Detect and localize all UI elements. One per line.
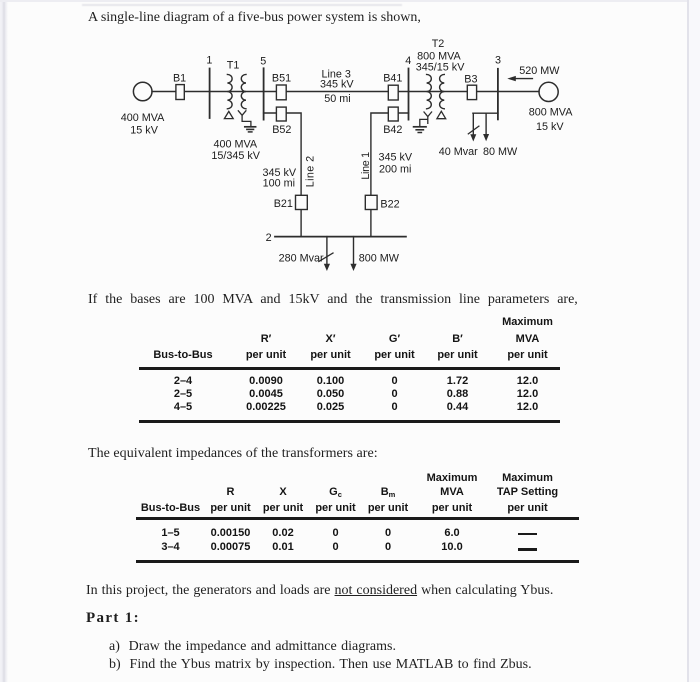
800 MW load arrow bbox=[350, 237, 356, 271]
left scan edge strip bbox=[0, 0, 9, 682]
node 1 label bbox=[206, 54, 212, 66]
T1 ground bbox=[245, 127, 256, 132]
bus 2 bbox=[275, 236, 406, 238]
B1 label bbox=[173, 73, 186, 85]
breaker B42 bbox=[388, 107, 398, 121]
svg-text:B42: B42 bbox=[383, 124, 402, 136]
svg-text:B3: B3 bbox=[464, 73, 477, 85]
280 Mvar load label bbox=[279, 253, 324, 265]
svg-text:400 MVA: 400 MVA bbox=[213, 139, 257, 151]
80 MW load arrow bbox=[483, 113, 489, 141]
svg-text:T1: T1 bbox=[227, 60, 240, 72]
bus 3 load stub wire bbox=[473, 112, 498, 114]
scan bleed-through ghost line bbox=[82, 4, 402, 6]
Line 3 label bbox=[320, 69, 354, 105]
wire bus 3 to generator G2 bbox=[498, 91, 539, 93]
B42 label bbox=[383, 124, 402, 136]
svg-text:15/345 kV: 15/345 kV bbox=[211, 150, 260, 162]
svg-text:280 Mvar: 280 Mvar bbox=[279, 253, 324, 265]
svg-text:800 MVA: 800 MVA bbox=[529, 107, 573, 119]
breaker B52 bbox=[276, 107, 286, 121]
B51 label bbox=[272, 72, 291, 84]
wire bus 4 through T2 to bus 3 bbox=[409, 91, 498, 93]
svg-text:T2: T2 bbox=[432, 38, 445, 50]
520 MW label bbox=[519, 65, 560, 77]
Line 2 name label (rotated) bbox=[305, 155, 317, 187]
breaker B21 bbox=[296, 195, 308, 209]
T2 rating label 800 MVA 345/15 kV bbox=[416, 38, 465, 74]
800 MW load label bbox=[359, 253, 400, 265]
bus 1 bbox=[209, 69, 211, 119]
svg-text:Line 1: Line 1 bbox=[360, 152, 372, 180]
svg-text:80 MW: 80 MW bbox=[483, 146, 518, 158]
wire Line 1 below B22 to bus 2 bbox=[370, 210, 372, 237]
svg-text:B41: B41 bbox=[383, 72, 402, 84]
paragraph 3 bbox=[88, 447, 378, 461]
wire bus 4 to Line 1 corner bbox=[371, 113, 409, 195]
B22 label bbox=[380, 198, 399, 210]
svg-text:400 MVA: 400 MVA bbox=[121, 112, 165, 124]
transformer T2 primary winding bbox=[427, 74, 432, 108]
breaker B51 bbox=[276, 85, 286, 100]
svg-text:345 kV: 345 kV bbox=[378, 152, 412, 164]
transformer T1 secondary winding bbox=[241, 74, 246, 108]
paragraph 1 bbox=[88, 11, 421, 25]
40 Mvar switch slash bbox=[468, 126, 479, 134]
bus 3 bbox=[497, 69, 499, 120]
T1 label bbox=[227, 60, 240, 72]
node 4 label bbox=[405, 55, 411, 67]
B52 label bbox=[272, 124, 291, 136]
280 Mvar load arrow bbox=[324, 237, 330, 271]
svg-text:B22: B22 bbox=[380, 198, 399, 210]
T2 delta winding symbol bbox=[437, 111, 446, 118]
svg-text:B52: B52 bbox=[272, 124, 291, 136]
bus 5 bbox=[263, 68, 265, 119]
svg-text:200 mi: 200 mi bbox=[379, 164, 411, 176]
280 Mvar switch slash bbox=[319, 253, 333, 262]
svg-text:5: 5 bbox=[260, 55, 266, 67]
svg-text:4: 4 bbox=[405, 55, 411, 67]
TABLE 1 bbox=[0, 0, 700, 1]
svg-text:15 kV: 15 kV bbox=[130, 125, 158, 137]
Line 2 rating label 345 kV 100 mi bbox=[262, 167, 296, 190]
node 2 label bbox=[266, 232, 272, 244]
breaker B1 bbox=[176, 85, 184, 100]
paragraph 4 bbox=[86, 584, 553, 598]
40 Mvar load label bbox=[439, 146, 478, 158]
node 3 label bbox=[495, 55, 501, 67]
svg-text:B51: B51 bbox=[272, 72, 291, 84]
svg-text:520 MW: 520 MW bbox=[519, 65, 560, 77]
B41 label bbox=[383, 72, 402, 84]
520 MW arrow into bus 3 bbox=[507, 76, 532, 81]
paragraph 7 bbox=[109, 658, 532, 672]
svg-text:345 kV: 345 kV bbox=[320, 79, 354, 91]
transformer T1 primary winding bbox=[227, 74, 232, 108]
wire G1 to bus 1 bbox=[152, 91, 210, 93]
T1 delta winding symbol bbox=[224, 111, 233, 118]
svg-text:3: 3 bbox=[495, 55, 501, 67]
T1 wye winding symbol bbox=[238, 111, 251, 127]
CIRCUIT SVG placeholder bbox=[0, 0, 700, 300]
top scan edge line bbox=[0, 0, 700, 2]
breaker B22 bbox=[365, 195, 377, 209]
wire bus 5 to Line 2 corner bbox=[264, 113, 302, 195]
G2 rating label 800 MVA 15 kV bbox=[529, 107, 573, 133]
T1 rating label 400 MVA 15/345 kV bbox=[211, 139, 260, 163]
wire bus 5 to bus 4 (Line 3) bbox=[264, 91, 409, 93]
generator G1 bbox=[133, 82, 152, 101]
svg-text:B1: B1 bbox=[173, 73, 186, 85]
paragraph 5 bbox=[86, 611, 140, 625]
svg-text:345/15 kV: 345/15 kV bbox=[416, 62, 465, 74]
svg-text:Line 2: Line 2 bbox=[305, 155, 317, 187]
generator G2 bbox=[539, 82, 558, 101]
80 MW load label bbox=[483, 146, 518, 158]
svg-text:40 Mvar: 40 Mvar bbox=[439, 146, 478, 158]
right scan edge line bbox=[687, 0, 689, 682]
breaker B41 bbox=[388, 85, 398, 100]
breaker B3 bbox=[467, 85, 476, 99]
wire Line 2 below B21 to bus 2 bbox=[300, 210, 302, 237]
B3 label bbox=[464, 73, 477, 85]
T2 ground bbox=[414, 127, 426, 133]
B21 label bbox=[274, 198, 293, 210]
svg-text:100 mi: 100 mi bbox=[263, 177, 295, 189]
T2 wye winding symbol bbox=[420, 112, 432, 126]
svg-text:2: 2 bbox=[266, 232, 272, 244]
G1 rating label 400 MVA 15 kV bbox=[121, 112, 165, 137]
Line 1 name label (rotated) bbox=[360, 152, 372, 180]
svg-text:B21: B21 bbox=[274, 198, 293, 210]
svg-text:15 kV: 15 kV bbox=[536, 121, 564, 133]
40 Mvar load arrow bbox=[470, 113, 476, 141]
svg-text:50 mi: 50 mi bbox=[324, 93, 350, 105]
bus 4 bbox=[408, 69, 410, 120]
node 5 label bbox=[260, 55, 266, 67]
wire bus 1 through T1 to bus 5 bbox=[210, 91, 264, 93]
svg-text:800 MW: 800 MW bbox=[359, 253, 400, 265]
TABLE 2 bbox=[0, 0, 700, 1]
paragraph 6 bbox=[109, 640, 396, 654]
Line 1 rating label 345 kV 200 mi bbox=[378, 152, 412, 176]
svg-text:1: 1 bbox=[206, 54, 212, 66]
paragraph 2 bbox=[88, 293, 578, 307]
transformer T2 secondary winding bbox=[440, 74, 445, 108]
